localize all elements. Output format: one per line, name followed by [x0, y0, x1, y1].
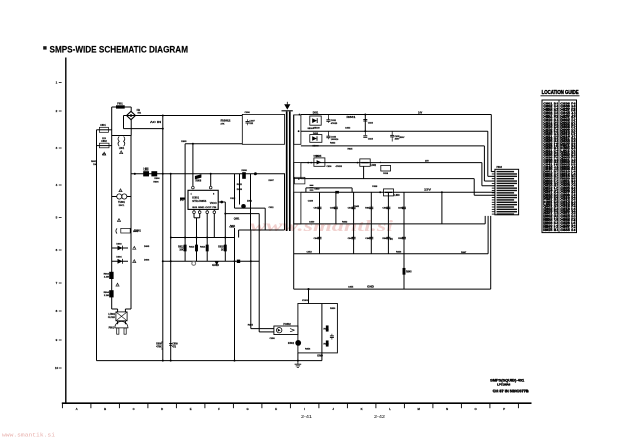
- wire AC neutral drop: [123, 116, 125, 129]
- svg-text:C833: C833: [345, 128, 351, 130]
- svg-text:www.smantl.si: www.smantl.si: [250, 218, 394, 235]
- connector CN801 pins: [497, 171, 514, 172]
- svg-text:R802: R802: [221, 120, 232, 123]
- svg-text:C812: C812: [230, 198, 236, 200]
- svg-text:GND: GND: [212, 264, 219, 267]
- svg-text:D803: D803: [116, 243, 122, 245]
- svg-text:450V: 450V: [400, 136, 405, 139]
- capacitor C802: [99, 143, 109, 148]
- wire row G up to connector: [484, 216, 486, 224]
- svg-text:R831: R831: [347, 117, 357, 119]
- location guide title underline: [541, 95, 580, 97]
- inductor L832 box: [360, 159, 370, 166]
- svg-text:D807: D807: [269, 180, 275, 182]
- wire vertical x234 lower: [234, 228, 236, 361]
- wire fuse top: [112, 106, 132, 108]
- svg-text:LF801: LF801: [108, 314, 115, 316]
- wire aux bottom: [239, 229, 285, 231]
- svg-text:1000/16: 1000/16: [331, 139, 339, 141]
- svg-text:H: H: [275, 407, 277, 411]
- wire sub row between E and F: [306, 187, 352, 189]
- wire AC neutral horizontal: [124, 128, 163, 130]
- svg-text:2-41: 2-41: [301, 414, 313, 419]
- wire Q803 box bottom: [297, 353, 299, 361]
- svg-text:C807: C807: [250, 121, 256, 123]
- svg-text:R806: R806: [154, 178, 160, 180]
- wire row C: [301, 145, 485, 147]
- svg-text:P803: P803: [497, 167, 503, 169]
- svg-text:13V: 13V: [424, 189, 432, 192]
- svg-text:G: G: [247, 407, 249, 411]
- svg-text:R814: R814: [200, 246, 206, 249]
- svg-text:470K: 470K: [156, 346, 162, 349]
- wire row F: [301, 191, 495, 193]
- svg-text:C836: C836: [327, 166, 333, 168]
- svg-text:LP71WA8: LP71WA8: [497, 383, 511, 387]
- svg-text:SB160: SB160: [308, 128, 315, 130]
- location guide table border: [542, 100, 577, 233]
- wire aux mid leg: [250, 174, 252, 230]
- diode D832 box: [310, 135, 322, 143]
- wire aux step horizontal: [235, 207, 266, 209]
- bottom ruler tick marks and letters: [61, 403, 63, 408]
- wire link F to G: [441, 192, 443, 224]
- wire filter to plug: [117, 321, 119, 324]
- svg-text:8V: 8V: [390, 238, 393, 241]
- IC801 pin2 circle: [209, 186, 212, 189]
- component on row E: [295, 177, 305, 184]
- transistor Q801: [241, 204, 246, 209]
- wire aux drop 1: [250, 230, 252, 329]
- wire aux bottom left stub: [238, 230, 240, 238]
- junction snubber: [192, 143, 194, 145]
- capacitor C835: [391, 131, 393, 134]
- svg-text:C855: C855: [348, 287, 354, 289]
- wire outer earth stub: [97, 129, 112, 131]
- wire row H up to connector: [487, 216, 489, 254]
- left ruler tick marks and numbers: [59, 82, 62, 84]
- svg-text:R815: R815: [218, 247, 224, 249]
- wire aux step right leg: [264, 208, 266, 230]
- capacitor C807 in snubber: [247, 119, 249, 121]
- secondary winding box 3: [294, 192, 301, 224]
- wire row E to pin: [473, 179, 475, 196]
- svg-text:D-6: D-6: [572, 228, 577, 232]
- junction dot B+ left: [134, 173, 136, 175]
- svg-text:IC803: IC803: [302, 300, 309, 302]
- svg-text:SB160: SB160: [313, 127, 320, 129]
- wire snubber left leg: [184, 144, 186, 238]
- svg-text:R846: R846: [396, 250, 402, 253]
- svg-text:R811: R811: [230, 226, 236, 228]
- svg-text:R848: R848: [382, 237, 388, 240]
- svg-text:L832: L832: [371, 165, 377, 167]
- wire row I up to connector: [490, 216, 492, 289]
- wire snubber drop: [185, 143, 242, 145]
- inductor L833 box: [384, 189, 394, 196]
- wire row D: [301, 162, 482, 164]
- svg-text:E: E: [190, 407, 192, 411]
- svg-text:TH801: TH801: [118, 202, 126, 204]
- svg-text:FILTER: FILTER: [108, 317, 116, 319]
- warning triangle D804: [133, 260, 136, 263]
- svg-text:L802: L802: [144, 168, 150, 170]
- svg-text:www.smantik.si: www.smantik.si: [2, 433, 55, 439]
- wire diamond bottom to rail: [130, 120, 132, 136]
- photocoupler PC802 led: [277, 328, 282, 333]
- svg-text:C856: C856: [270, 338, 276, 340]
- photocoupler pin marks: [290, 329, 295, 331]
- junction blob row F: [335, 191, 339, 194]
- wire row I to box: [308, 289, 310, 303]
- svg-text:L801: L801: [119, 148, 125, 150]
- shunt reg IC802: [295, 340, 301, 346]
- svg-text:R809: R809: [156, 344, 162, 346]
- diode D808 on B+ wire: [242, 172, 246, 179]
- svg-text:C853: C853: [307, 251, 313, 253]
- wire vertical x170: [170, 174, 172, 361]
- wire IC pin5 drop: [206, 214, 208, 238]
- wire aux drop 2 to PC802: [259, 331, 274, 333]
- svg-text:2.2M: 2.2M: [104, 276, 109, 278]
- capacitor C832: [327, 131, 329, 135]
- wire right rail: [130, 136, 132, 310]
- wire IC feedback right: [218, 201, 225, 203]
- svg-text:R841: R841: [365, 207, 371, 210]
- svg-text:C: C: [133, 407, 135, 411]
- wire row I: [294, 288, 491, 290]
- svg-text:Q801: Q801: [234, 218, 240, 220]
- svg-text:16V: 16V: [418, 112, 423, 115]
- error amp box: [298, 304, 338, 353]
- secondary winding box 2: [294, 163, 301, 179]
- svg-text:GND: GND: [317, 355, 323, 357]
- relay RY801: [116, 228, 117, 233]
- svg-text:C802: C802: [101, 141, 107, 143]
- resistor R813: [196, 238, 198, 262]
- wire feedback bus: [171, 237, 235, 239]
- svg-text:10K: 10K: [179, 250, 184, 252]
- wire outer earth rail: [96, 130, 98, 361]
- junction dot B+ at x170: [170, 173, 172, 175]
- wire vertical x225: [224, 202, 226, 238]
- wire IC pin1 riser: [192, 144, 194, 186]
- resistor R814: [206, 238, 208, 262]
- svg-text:SMPS-WIDE SCHEMATIC DIAGRAM: SMPS-WIDE SCHEMATIC DIAGRAM: [50, 44, 189, 54]
- junction AC wire to R-line: [162, 115, 164, 117]
- warning triangle TH801: [119, 189, 122, 192]
- ferrite bead L803: [152, 172, 157, 176]
- svg-text:1M: 1M: [93, 164, 96, 166]
- wire row A: [301, 114, 491, 116]
- wire row E: [301, 178, 474, 180]
- secondary winding box 1: [294, 115, 301, 144]
- svg-text:C801: C801: [100, 125, 106, 127]
- ferrite bead L802: [144, 172, 149, 176]
- transformer T801 core lines: [286, 112, 288, 232]
- svg-text:CH 87 IN NIHC077B: CH 87 IN NIHC077B: [493, 389, 530, 393]
- warning triangle D803: [133, 246, 136, 249]
- svg-text:D: D: [161, 407, 163, 411]
- varistor FB801 diamond: [127, 111, 136, 119]
- resistor R812: [184, 238, 186, 262]
- wire error box stub down: [321, 353, 323, 361]
- svg-text:C844: C844: [382, 207, 388, 210]
- svg-text:D804: D804: [116, 256, 122, 259]
- svg-text:2.2M: 2.2M: [104, 295, 109, 297]
- svg-text:VCC: VCC: [210, 202, 217, 205]
- svg-text:C833: C833: [561, 228, 571, 232]
- resistor R815: [224, 238, 226, 262]
- svg-text:N: N: [446, 407, 448, 411]
- svg-text:D835: D835: [314, 156, 320, 158]
- diode D835 box: [314, 158, 325, 166]
- svg-text:2-42: 2-42: [374, 414, 386, 419]
- svg-text:R855: R855: [248, 324, 254, 326]
- page title bullet: [43, 46, 46, 49]
- svg-text:D809: D809: [237, 189, 243, 191]
- capacitor C838 box: [381, 165, 391, 171]
- wire vertical x162: [162, 116, 164, 361]
- capacitor C801: [99, 127, 108, 132]
- diode D831 box: [310, 116, 321, 125]
- svg-text:C849: C849: [398, 207, 404, 210]
- connector CN801 box: [495, 169, 519, 215]
- wire row D to pin: [481, 163, 483, 186]
- junction blob aux: [254, 172, 257, 175]
- svg-text:27K: 27K: [221, 123, 225, 125]
- IC801 bottom pin circles: [193, 209, 195, 211]
- secondary winding rail: [293, 115, 295, 289]
- svg-text:R833: R833: [330, 142, 336, 144]
- capacitor C852: [331, 334, 333, 336]
- wire primary bottom bus: [97, 360, 322, 362]
- resistor R803: [110, 272, 114, 278]
- svg-text:S801: S801: [133, 231, 139, 233]
- svg-text:IC802: IC802: [288, 343, 295, 345]
- wire IC pin4 drop: [199, 214, 201, 218]
- svg-text:C841: C841: [313, 207, 319, 210]
- svg-text:D832: D832: [313, 133, 319, 135]
- svg-text:R842: R842: [342, 221, 348, 224]
- line filter choke L801: [118, 137, 119, 147]
- svg-text:470/35: 470/35: [336, 165, 343, 168]
- svg-text:STR-F6654: STR-F6654: [192, 200, 207, 203]
- wire rails converge: [112, 308, 118, 310]
- warning triangle L801: [120, 151, 123, 154]
- wire left rail drop from fuse: [111, 107, 113, 136]
- diode D803 row: [112, 247, 128, 249]
- location guide table divider: [558, 100, 560, 233]
- svg-text:IC801: IC801: [192, 197, 199, 200]
- wire aux horizontal 213: [225, 213, 259, 215]
- op-amp U1 IC801 STR box: [188, 190, 218, 209]
- thermistor TH801: [117, 194, 122, 199]
- svg-text:R806: R806: [153, 181, 159, 183]
- svg-text:C847: C847: [348, 237, 354, 240]
- svg-text:R856: R856: [305, 349, 311, 351]
- svg-text:C839: C839: [308, 201, 314, 203]
- wire aux drop 2: [258, 230, 260, 332]
- svg-text:C840: C840: [309, 221, 315, 224]
- wire row G: [294, 223, 486, 225]
- svg-text:C809: C809: [172, 344, 178, 346]
- svg-text:D840: D840: [315, 187, 321, 190]
- svg-text:R808: R808: [196, 180, 202, 183]
- svg-text:C833: C833: [368, 122, 374, 124]
- wire aux left leg: [234, 174, 236, 208]
- svg-text:F: F: [218, 407, 220, 411]
- wire link D to E: [363, 166, 365, 178]
- snubber box D806: [242, 114, 284, 144]
- zener D840 stack: [310, 184, 314, 186]
- wire aux drop 1 to PC802: [251, 328, 274, 330]
- svg-text:C850: C850: [398, 238, 404, 240]
- svg-text:D806: D806: [144, 259, 150, 261]
- IC801 pin1 circle: [192, 186, 195, 189]
- svg-text:LOCATION GUIDE: LOCATION GUIDE: [542, 90, 580, 96]
- wire rail bridge top: [112, 135, 131, 137]
- svg-text:M-4: M-4: [554, 228, 559, 232]
- svg-text:10: 10: [55, 366, 59, 370]
- warning triangle R803: [116, 283, 119, 286]
- wire vertical x404: [403, 192, 405, 289]
- svg-text:25V: 25V: [425, 161, 429, 163]
- junction dots bottom bus: [162, 360, 164, 362]
- junction dot B+ at x162: [162, 173, 164, 175]
- capacitor strings secondary: [319, 192, 321, 254]
- wire link A to B: [364, 115, 366, 132]
- svg-text:S/S GND OCP FB: S/S GND OCP FB: [192, 207, 217, 209]
- svg-text:R821: R821: [237, 184, 243, 186]
- ground symbol bottom: [297, 361, 299, 365]
- svg-text:C806: C806: [245, 112, 251, 114]
- error amp inner divider: [321, 304, 323, 353]
- wire row A to pin: [490, 115, 492, 172]
- wire IC pin3 drop: [193, 214, 195, 218]
- junction dot ground bus x234: [237, 260, 240, 263]
- left border ruler line: [65, 58, 67, 404]
- wire main B+ horizontal: [131, 173, 285, 175]
- svg-text:K: K: [361, 407, 363, 411]
- junction dot row I: [307, 288, 309, 290]
- svg-text:C845: C845: [354, 205, 360, 208]
- wire row C to pin: [483, 146, 485, 181]
- wire IC pin2 riser: [210, 174, 212, 187]
- svg-text:R805: R805: [181, 141, 187, 143]
- svg-text:P801: P801: [109, 328, 115, 330]
- fuse F801: [116, 106, 124, 109]
- wire aux right edge: [284, 174, 286, 230]
- capacitor C831: [327, 115, 329, 120]
- svg-text:R835: R835: [348, 149, 354, 151]
- svg-text:C834: C834: [368, 137, 374, 140]
- wire ground bus under IC: [163, 260, 259, 262]
- photocoupler PC802 box: [274, 326, 298, 335]
- svg-text:470/25: 470/25: [331, 122, 338, 125]
- svg-text:C848: C848: [365, 237, 371, 240]
- svg-text:B: B: [104, 407, 106, 411]
- wire outer earth stub 2: [97, 145, 112, 147]
- svg-text:1K: 1K: [221, 250, 224, 252]
- svg-text:D808: D808: [242, 170, 248, 172]
- svg-text:AC IN: AC IN: [150, 121, 161, 124]
- wire aux mid leg 2: [258, 214, 260, 230]
- wire IC pin6 drop: [213, 214, 215, 238]
- svg-text:SMPS(SQUIB)-401: SMPS(SQUIB)-401: [490, 379, 524, 383]
- svg-text:C838: C838: [372, 186, 378, 188]
- svg-text:GND: GND: [367, 286, 374, 289]
- svg-text:R847: R847: [461, 251, 467, 254]
- junction dot B+ at x210: [210, 173, 212, 175]
- svg-text:R804: R804: [104, 291, 110, 294]
- svg-text:D831: D831: [313, 112, 319, 114]
- diode D804 row: [112, 260, 128, 262]
- warning triangle mid rail: [117, 219, 120, 222]
- svg-text:R801: R801: [91, 161, 97, 163]
- wire left rail: [111, 136, 113, 310]
- svg-text:F801: F801: [117, 102, 123, 105]
- svg-text:C846: C846: [313, 237, 319, 240]
- wire row H: [294, 253, 488, 255]
- svg-text:D5C1: D5C1: [119, 205, 125, 207]
- AC plug P801: [115, 321, 128, 328]
- svg-text:C838: C838: [383, 173, 389, 175]
- safety arrow at transformer top: [284, 104, 290, 109]
- svg-text:P: P: [503, 407, 505, 411]
- wire row B to pin: [487, 131, 489, 176]
- svg-text:L833: L833: [394, 195, 400, 197]
- resistor R821 leg: [239, 174, 241, 205]
- svg-text:C811: C811: [269, 207, 275, 209]
- svg-text:R845: R845: [406, 270, 412, 273]
- svg-text:PC802: PC802: [283, 323, 291, 326]
- warning triangle C802: [103, 152, 106, 155]
- wire diamond top link: [130, 107, 132, 111]
- svg-text:R815: R815: [544, 228, 554, 232]
- svg-text:C842: C842: [330, 207, 336, 210]
- svg-text:Z801: Z801: [247, 201, 253, 203]
- svg-text:C843: C843: [348, 207, 354, 210]
- wire AC line out of diamond: [124, 115, 243, 117]
- resistor R804: [110, 291, 114, 297]
- svg-text:L: L: [389, 407, 391, 411]
- svg-text:R812: R812: [178, 247, 184, 249]
- svg-text:R803: R803: [104, 274, 110, 276]
- bottom border ruler line: [62, 402, 532, 404]
- svg-text:D805: D805: [144, 246, 150, 248]
- svg-text:R813: R813: [189, 247, 195, 249]
- svg-text:A: A: [76, 407, 78, 411]
- svg-text:R850: R850: [330, 308, 336, 310]
- line filter T801: [116, 312, 127, 321]
- wire row B: [301, 130, 488, 132]
- ground symbol under IC: [192, 262, 196, 266]
